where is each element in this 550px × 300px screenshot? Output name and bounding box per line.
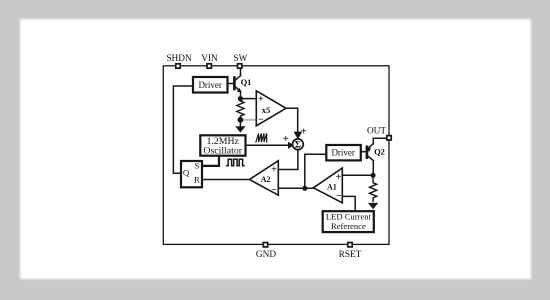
- resistor R2: [370, 175, 377, 201]
- wire OUT to Q2: [373, 138, 386, 144]
- driver U4 (right): [326, 145, 361, 160]
- wire Q2 emitter down: [372, 161, 374, 176]
- pin OUT: [387, 136, 391, 140]
- wire summer to A2 +: [278, 150, 298, 170]
- transistor Q1: [234, 76, 241, 92]
- svg-text:Reference: Reference: [331, 221, 366, 231]
- svg-text:Q1: Q1: [241, 77, 252, 87]
- wire A1 - input to reference: [342, 196, 355, 211]
- node A1 output: [302, 186, 307, 191]
- svg-text:Σ: Σ: [295, 141, 301, 151]
- wire oscillator to latch S: [202, 156, 219, 166]
- svg-text:−: −: [271, 185, 277, 196]
- svg-text:+: +: [301, 127, 307, 138]
- oscillator box: [200, 135, 245, 155]
- wire Q2 base: [361, 151, 366, 153]
- node at resistor bottom: [238, 117, 244, 123]
- transistor Q2: [367, 144, 373, 161]
- wire latch Q output to Driver: [173, 86, 193, 173]
- svg-text:OUT: OUT: [367, 127, 386, 137]
- wire SW to Q1 collector: [240, 69, 242, 76]
- sawtooth waveform icon: [256, 133, 267, 142]
- comparator A2: [250, 161, 279, 196]
- svg-text:GND: GND: [256, 250, 276, 260]
- svg-text:VIN: VIN: [201, 54, 218, 64]
- pin GND: [263, 243, 267, 247]
- wire Q1 base: [228, 83, 234, 85]
- wire x5 output to summer: [286, 108, 298, 133]
- svg-text:Oscillator: Oscillator: [203, 145, 242, 156]
- ground arrow below R1: [239, 120, 241, 127]
- pin SW: [238, 64, 242, 68]
- svg-text:Driver: Driver: [331, 148, 355, 158]
- svg-text:+: +: [336, 172, 342, 183]
- wire A2 out to latch R: [202, 179, 250, 181]
- wire Q1 emitter down: [240, 91, 242, 98]
- svg-text:x5: x5: [262, 105, 271, 115]
- summer node (sigma): [293, 139, 304, 150]
- SR latch: [181, 161, 202, 187]
- svg-text:S: S: [194, 161, 199, 171]
- wire node to driver (right) input: [305, 154, 327, 188]
- IC block border: [163, 66, 389, 245]
- LED current reference box: [323, 211, 374, 232]
- svg-text:−: −: [258, 114, 264, 125]
- wire oscillator to summer: [246, 144, 290, 146]
- svg-text:−: −: [336, 191, 342, 202]
- svg-text:SW: SW: [233, 54, 247, 64]
- svg-text:Q: Q: [183, 168, 190, 178]
- svg-text:+: +: [271, 165, 277, 176]
- op-amp x5: [256, 91, 286, 126]
- driver U3 (left): [193, 77, 228, 93]
- pin VIN: [207, 64, 211, 68]
- svg-text:SHDN: SHDN: [166, 54, 192, 64]
- node at Q1 emitter: [238, 96, 243, 101]
- svg-text:+: +: [258, 94, 264, 105]
- pin RSET: [348, 243, 352, 247]
- wire node to x5 -: [244, 119, 256, 121]
- svg-text:Q2: Q2: [374, 147, 385, 157]
- current arrow below R2: [369, 203, 378, 209]
- pin SHDN: [176, 64, 180, 68]
- amplifier A1: [313, 168, 342, 203]
- svg-text:A2: A2: [261, 175, 271, 184]
- square wave icon: [227, 159, 244, 165]
- svg-text:+: +: [283, 134, 289, 145]
- svg-text:RSET: RSET: [339, 250, 362, 260]
- svg-text:Driver: Driver: [198, 80, 222, 90]
- node Q2/RSET: [371, 173, 376, 178]
- wire A1 out to A2 -: [278, 187, 313, 189]
- svg-text:R: R: [194, 174, 200, 184]
- resistor R1 (sense): [237, 100, 244, 119]
- wire A1 + input: [342, 174, 373, 176]
- wire node to x5 +: [240, 98, 256, 100]
